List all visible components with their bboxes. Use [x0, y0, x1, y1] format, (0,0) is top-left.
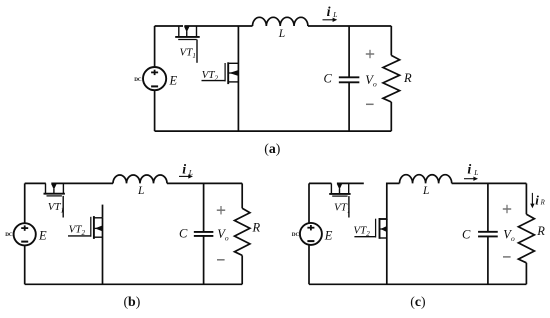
transistor VT2 source stub	[380, 237, 387, 239]
svg-text:E: E	[324, 229, 333, 243]
transistor VT2 source stub	[94, 236, 103, 238]
svg-text:C: C	[179, 226, 188, 240]
voltage source E (b)	[14, 223, 36, 245]
wire b: top rail from source to VT1	[25, 182, 46, 184]
transistor VT1 drain stub	[330, 183, 332, 194]
transistor VT1 body arrow	[337, 184, 342, 190]
resistor R (a)	[383, 55, 400, 102]
transistor VT2 gate bar	[224, 63, 226, 81]
capacitor C plates	[194, 231, 214, 233]
transistor VT2 channel bar	[227, 62, 229, 84]
transistor VT2 body stub and arrow	[380, 228, 387, 230]
svg-text:(a): (a)	[264, 141, 280, 157]
svg-text:C: C	[462, 227, 471, 241]
transistor VT1 gate bar	[178, 39, 197, 41]
transistor VT1 gate bar	[332, 195, 347, 197]
svg-text:C: C	[324, 72, 333, 86]
svg-text:i: i	[535, 192, 539, 207]
wire b: VT2 dangling drain stub	[102, 205, 104, 218]
transistor VT2 gate bar	[375, 219, 377, 238]
wire c: left wire from top rail to source	[308, 183, 310, 223]
svg-text:L: L	[332, 10, 337, 19]
transistor VT2 channel bar	[379, 218, 381, 239]
label - polarity of Vo	[217, 259, 225, 261]
transistor VT1 gate lead	[196, 40, 198, 63]
transistor VT2 gate lead	[68, 235, 91, 237]
svg-text:E: E	[38, 229, 47, 243]
wire c: bottom rail	[309, 283, 526, 285]
svg-text:R: R	[252, 220, 261, 234]
wire c: capacitor branch bottom	[487, 236, 489, 284]
label + polarity of Vo	[503, 208, 511, 210]
svg-text:L: L	[422, 185, 429, 197]
wire b: left wire from top rail to source	[24, 183, 26, 223]
transistor VT1 source stub	[348, 183, 350, 194]
wire a: left wire from source to bottom rail	[154, 90, 156, 131]
voltage source E (a)	[143, 67, 166, 90]
capacitor C plates	[478, 231, 498, 233]
wire c: VT2 branch vertical to bottom rail	[386, 219, 388, 284]
wire a: bottom rail	[155, 130, 392, 132]
voltage source E (c)	[300, 223, 322, 245]
transistor VT2 body stub and arrow	[94, 227, 103, 229]
svg-text:i: i	[327, 5, 331, 20]
wire b: top rail inductor to output node	[167, 182, 242, 184]
transistor VT1 drain stub	[178, 26, 180, 37]
transistor VT2 drain stub	[228, 62, 238, 64]
label - polarity of Vo	[366, 103, 374, 105]
wire b: right wire top rail to resistor	[241, 183, 243, 208]
transistor VT1 gate lead	[62, 196, 64, 218]
transistor VT1 source stub	[62, 183, 64, 193]
transistor VT1 body arrow	[51, 184, 56, 190]
wire c: top rail inductor to output node	[452, 182, 527, 184]
transistor VT1 gate bar	[47, 195, 62, 197]
label iR with arrow (c)	[531, 193, 533, 205]
svg-text:DC: DC	[292, 232, 300, 238]
inductor L (b)	[113, 175, 167, 183]
transistor VT1 gate lead	[348, 196, 350, 217]
transistor VT2 gate bar	[90, 217, 92, 237]
svg-text:(c): (c)	[410, 294, 425, 310]
svg-text:(b): (b)	[123, 294, 140, 310]
svg-text:E: E	[169, 74, 178, 88]
wire b: top rail VT1 arrow to inductor	[51, 182, 113, 184]
svg-text:i: i	[182, 162, 186, 177]
wire c: right wire top rail to resistor	[525, 183, 527, 214]
transistor VT1 drain stub	[45, 183, 47, 193]
wire b: bottom rail	[25, 283, 243, 285]
transistor VT2 gate lead	[354, 236, 375, 238]
svg-text:R: R	[536, 224, 545, 238]
wire a: top rail from source to VT1	[155, 25, 183, 27]
label + polarity of Vo	[217, 209, 225, 211]
wire c: left wire from source to bottom rail	[308, 245, 310, 284]
svg-text:R: R	[403, 71, 412, 85]
wire c: VT2 drain riser to inductor node	[379, 183, 399, 219]
wire a: VT2 branch vertical (switch node to bottom rail)	[237, 26, 239, 131]
wire a: right wire top rail to resistor	[390, 26, 392, 55]
svg-text:L: L	[278, 28, 285, 40]
wire a: resistor to bottom rail	[390, 102, 392, 131]
wire b: capacitor branch top	[203, 183, 205, 232]
svg-text:L: L	[137, 185, 144, 197]
transistor VT2 channel bar	[93, 216, 95, 239]
capacitor C plates	[339, 76, 360, 78]
wire b: left wire from source to bottom rail	[24, 245, 26, 284]
wire b: capacitor branch bottom	[203, 236, 205, 284]
wire a: capacitor branch top	[348, 26, 350, 77]
transistor VT2 drain stub	[380, 218, 387, 220]
wire b: resistor to bottom rail	[241, 255, 243, 284]
label - polarity of Vo	[503, 256, 511, 258]
transistor VT1 source stub	[196, 26, 198, 37]
inductor L (a)	[253, 17, 308, 26]
label + polarity of Vo	[366, 53, 374, 55]
wire c: top rail VT1 arrow to dangling end	[337, 182, 364, 184]
wire c: capacitor branch top	[487, 183, 489, 231]
wire a: left wire from top rail to source	[154, 26, 156, 67]
transistor VT2 source stub	[228, 81, 238, 83]
transistor VT1 channel bar	[44, 193, 65, 195]
transistor VT1 body arrow	[184, 27, 190, 33]
svg-text:i: i	[467, 163, 471, 178]
transistor VT2 gate lead	[202, 80, 226, 82]
wire a: capacitor branch bottom	[348, 82, 350, 131]
svg-text:R: R	[540, 200, 546, 207]
inductor L (c)	[400, 175, 452, 184]
svg-text:DC: DC	[134, 77, 142, 83]
wire a: top rail inductor to output node	[308, 25, 391, 27]
svg-text:L: L	[473, 168, 478, 177]
wire c: resistor to bottom rail	[525, 263, 527, 285]
wire a: top rail VT1 arrow to inductor	[184, 25, 252, 27]
resistor R (b)	[235, 208, 250, 255]
wire c: top rail from source to VT1	[309, 182, 331, 184]
resistor R (c)	[518, 214, 534, 262]
transistor VT2 body stub and arrow	[228, 72, 238, 74]
transistor VT1 channel bar	[329, 193, 350, 195]
svg-text:DC: DC	[5, 232, 13, 238]
transistor VT1 channel bar	[175, 36, 200, 38]
transistor VT2 drain stub	[94, 217, 103, 219]
wire b: VT2 branch vertical to bottom rail	[102, 218, 104, 284]
